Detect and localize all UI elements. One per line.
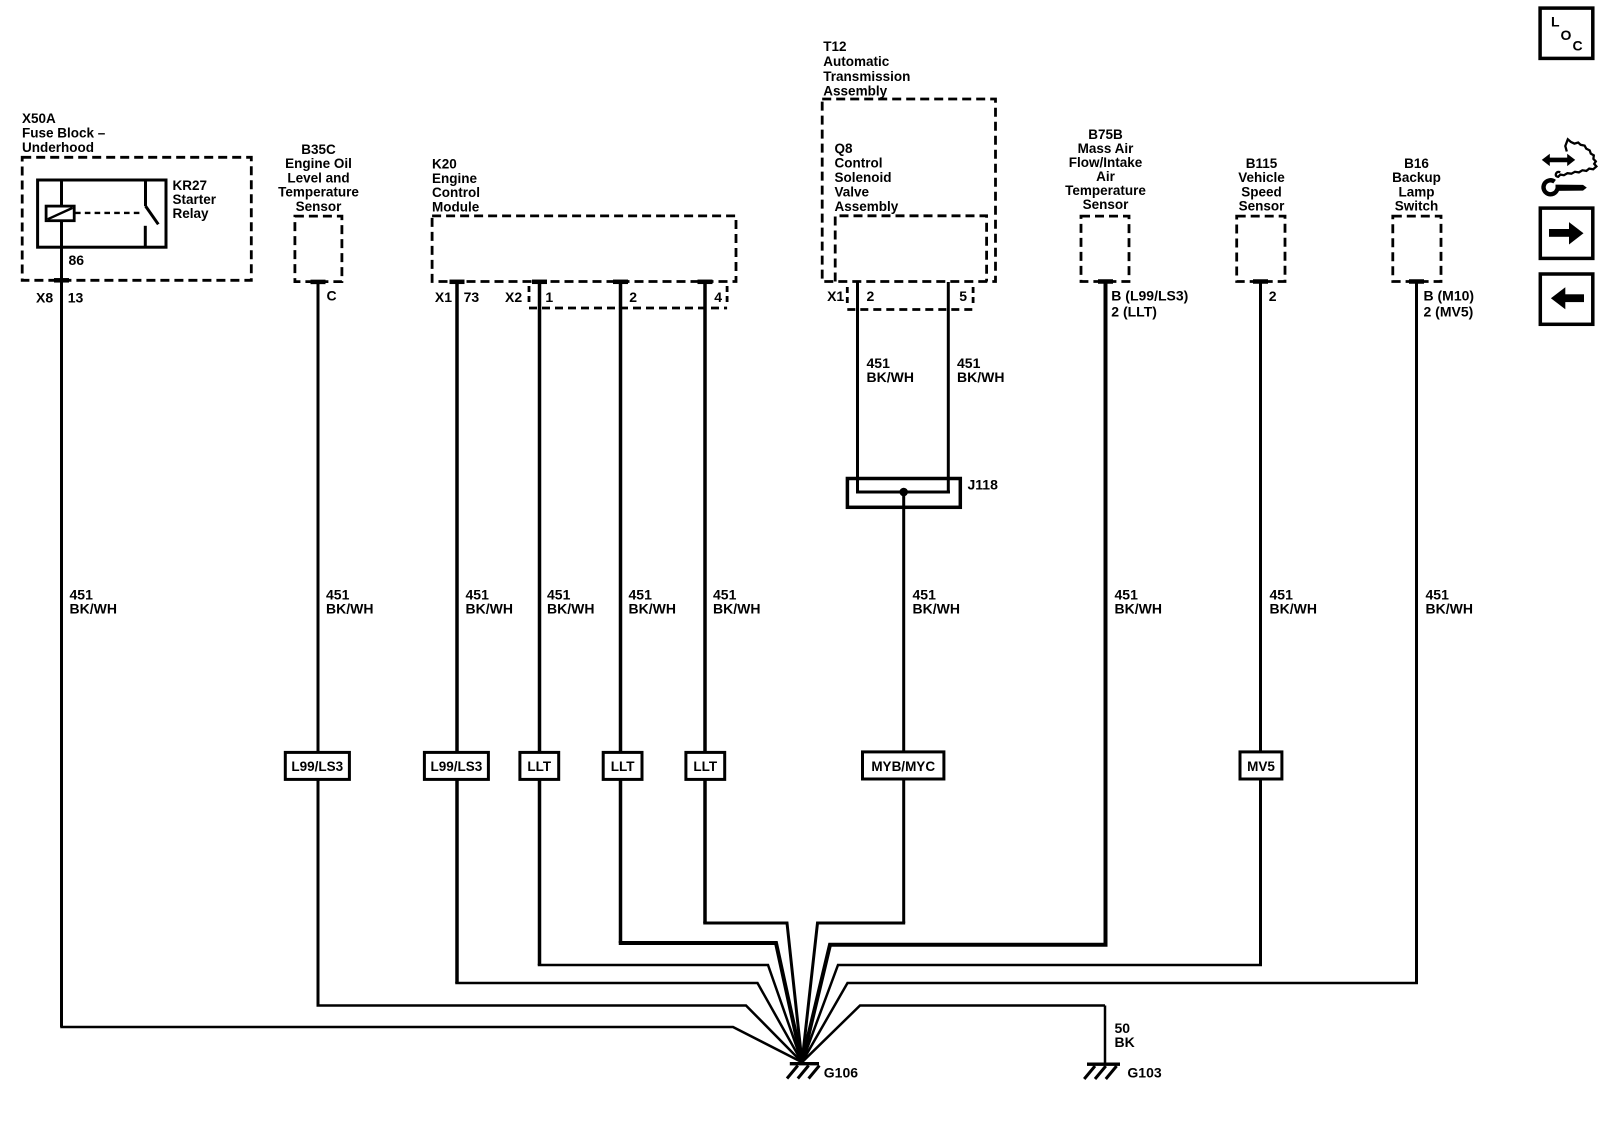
svg-text:13: 13 bbox=[68, 290, 84, 306]
svg-text:Switch: Switch bbox=[1395, 199, 1439, 214]
svg-text:BK/WH: BK/WH bbox=[547, 600, 594, 616]
svg-text:BK/WH: BK/WH bbox=[466, 600, 513, 616]
svg-text:Automatic: Automatic bbox=[823, 54, 889, 69]
svg-text:Control: Control bbox=[432, 185, 480, 200]
svg-text:BK: BK bbox=[1115, 1034, 1135, 1050]
svg-text:2: 2 bbox=[867, 288, 875, 304]
svg-text:G106: G106 bbox=[824, 1065, 858, 1081]
svg-text:X50A: X50A bbox=[22, 111, 56, 126]
svg-text:L99/LS3: L99/LS3 bbox=[431, 759, 483, 774]
svg-text:86: 86 bbox=[69, 252, 85, 268]
svg-text:Lamp: Lamp bbox=[1398, 184, 1434, 199]
svg-text:G103: G103 bbox=[1127, 1065, 1161, 1081]
svg-text:1: 1 bbox=[545, 289, 553, 305]
svg-text:Valve: Valve bbox=[835, 184, 870, 199]
svg-text:X2: X2 bbox=[505, 289, 522, 305]
svg-text:L: L bbox=[1551, 14, 1560, 30]
svg-text:Sensor: Sensor bbox=[1239, 199, 1286, 214]
svg-text:2 (LLT): 2 (LLT) bbox=[1111, 304, 1157, 320]
svg-text:Vehicle: Vehicle bbox=[1238, 170, 1285, 185]
svg-text:4: 4 bbox=[714, 289, 722, 305]
svg-text:Q8: Q8 bbox=[835, 141, 854, 156]
svg-text:2: 2 bbox=[1269, 288, 1277, 304]
svg-text:K20: K20 bbox=[432, 156, 457, 171]
svg-text:Mass Air: Mass Air bbox=[1078, 141, 1135, 156]
svg-text:LLT: LLT bbox=[693, 759, 717, 774]
svg-text:Relay: Relay bbox=[173, 206, 210, 221]
svg-text:Control: Control bbox=[835, 156, 883, 171]
svg-text:BK/WH: BK/WH bbox=[1115, 600, 1162, 616]
svg-text:Assembly: Assembly bbox=[835, 199, 899, 214]
svg-text:Temperature: Temperature bbox=[278, 185, 359, 200]
svg-text:B75B: B75B bbox=[1088, 127, 1123, 142]
svg-text:B115: B115 bbox=[1246, 156, 1278, 171]
svg-text:BK/WH: BK/WH bbox=[713, 600, 760, 616]
svg-text:Sensor: Sensor bbox=[1083, 197, 1130, 212]
svg-text:Solenoid: Solenoid bbox=[835, 170, 892, 185]
svg-text:X1: X1 bbox=[435, 289, 452, 305]
svg-text:MYB/MYC: MYB/MYC bbox=[871, 759, 935, 774]
svg-text:Temperature: Temperature bbox=[1065, 183, 1146, 198]
svg-text:2: 2 bbox=[629, 289, 637, 305]
svg-text:Level and: Level and bbox=[287, 170, 349, 185]
svg-text:Assembly: Assembly bbox=[823, 84, 887, 99]
svg-text:BK/WH: BK/WH bbox=[326, 600, 373, 616]
svg-text:LLT: LLT bbox=[611, 759, 635, 774]
svg-text:KR27: KR27 bbox=[173, 178, 208, 193]
svg-text:C: C bbox=[327, 288, 337, 304]
svg-text:X8: X8 bbox=[36, 290, 53, 306]
svg-text:BK/WH: BK/WH bbox=[70, 600, 117, 616]
svg-text:Sensor: Sensor bbox=[296, 199, 343, 214]
svg-text:Module: Module bbox=[432, 200, 480, 215]
svg-text:C: C bbox=[1573, 38, 1583, 54]
svg-text:2 (MV5): 2 (MV5) bbox=[1424, 304, 1474, 320]
svg-text:B35C: B35C bbox=[301, 142, 336, 157]
svg-text:Engine: Engine bbox=[432, 171, 477, 186]
svg-text:X1: X1 bbox=[827, 288, 844, 304]
svg-text:MV5: MV5 bbox=[1247, 759, 1275, 774]
svg-text:Engine Oil: Engine Oil bbox=[285, 156, 352, 171]
svg-text:Air: Air bbox=[1096, 169, 1116, 184]
svg-text:BK/WH: BK/WH bbox=[1270, 600, 1317, 616]
svg-text:Fuse Block –: Fuse Block – bbox=[22, 125, 106, 140]
svg-text:T12: T12 bbox=[823, 39, 846, 54]
svg-text:BK/WH: BK/WH bbox=[957, 369, 1004, 385]
svg-text:5: 5 bbox=[959, 288, 967, 304]
svg-text:O: O bbox=[1561, 27, 1572, 43]
svg-text:BK/WH: BK/WH bbox=[1426, 600, 1473, 616]
svg-text:B (L99/LS3): B (L99/LS3) bbox=[1111, 287, 1188, 303]
svg-text:BK/WH: BK/WH bbox=[913, 600, 960, 616]
svg-text:Speed: Speed bbox=[1241, 184, 1282, 199]
svg-text:Flow/Intake: Flow/Intake bbox=[1069, 155, 1143, 170]
svg-text:BK/WH: BK/WH bbox=[629, 600, 676, 616]
svg-text:BK/WH: BK/WH bbox=[867, 369, 914, 385]
svg-text:B16: B16 bbox=[1404, 156, 1429, 171]
svg-text:Backup: Backup bbox=[1392, 170, 1441, 185]
svg-text:Transmission: Transmission bbox=[823, 69, 910, 84]
svg-text:B (M10): B (M10) bbox=[1424, 287, 1475, 303]
svg-text:LLT: LLT bbox=[527, 759, 551, 774]
svg-text:Underhood: Underhood bbox=[22, 140, 94, 155]
svg-text:Starter: Starter bbox=[173, 192, 217, 207]
svg-text:L99/LS3: L99/LS3 bbox=[291, 759, 343, 774]
svg-text:J118: J118 bbox=[968, 476, 999, 492]
svg-text:73: 73 bbox=[464, 289, 480, 305]
